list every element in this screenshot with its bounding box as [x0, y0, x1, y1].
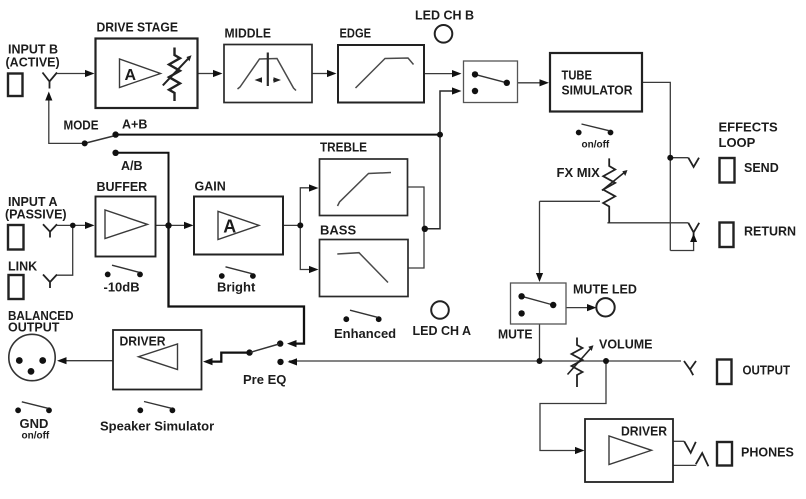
block DRIVER phones: [585, 419, 673, 482]
middle sweep arrows: [258, 79, 277, 81]
wire pre-eq tap: [169, 226, 305, 344]
switch Bright: [219, 267, 256, 279]
junction input A / link node: [70, 223, 76, 229]
XLR balanced output connector: [9, 334, 55, 380]
svg-text:EDGE: EDGE: [340, 26, 372, 41]
svg-text:LINK: LINK: [8, 260, 37, 274]
block DRIVER balanced: [113, 330, 202, 390]
wire bass out: [408, 229, 424, 268]
arrow into bass: [309, 266, 319, 273]
middle center line: [267, 53, 269, 87]
svg-text:BUFFER: BUFFER: [97, 180, 148, 194]
label EFFECTS LOOP: [719, 120, 779, 151]
block MIDDLE: [224, 45, 312, 103]
wire A/B to buffer node: [116, 153, 169, 226]
jack rect INPUT B: [8, 74, 23, 97]
svg-text:A: A: [223, 217, 236, 237]
wire fx wiper to mute: [540, 201, 601, 274]
treble curve: [338, 173, 392, 207]
arrow into xlr: [57, 357, 67, 364]
jack rect SEND: [720, 158, 735, 183]
wire node to treble: [300, 188, 310, 226]
junction treble/bass output node: [422, 226, 428, 232]
amplifier A drive: [120, 59, 161, 88]
potentiometer FX MIX: [602, 158, 624, 222]
svg-text:INPUT B: INPUT B: [8, 43, 58, 57]
wire middle to edge: [312, 73, 328, 75]
channel select switch box: [464, 61, 518, 103]
block EDGE: [338, 45, 424, 103]
junction send node: [667, 155, 673, 161]
buffer triangle: [105, 210, 148, 239]
junction volume output node: [603, 358, 609, 364]
switch Enhanced: [343, 310, 381, 322]
svg-text:MODE: MODE: [64, 119, 99, 133]
junction mute node: [537, 358, 543, 364]
switch Speaker Simulator: [137, 402, 175, 414]
svg-text:DRIVER: DRIVER: [120, 335, 166, 349]
svg-text:GAIN: GAIN: [195, 180, 226, 194]
svg-text:OUTPUT: OUTPUT: [8, 321, 60, 335]
arrow into mute box: [536, 273, 543, 282]
wire return loop: [670, 241, 693, 251]
bass curve: [337, 253, 388, 283]
plug PHONES tip: [684, 441, 696, 453]
arrow into channel switch bottom: [452, 87, 462, 94]
potentiometer VOLUME: [568, 338, 591, 388]
svg-text:VOLUME: VOLUME: [599, 338, 652, 352]
plug SEND: [688, 158, 699, 167]
LED CH B circle: [435, 25, 453, 43]
arrow into middle: [213, 70, 223, 77]
svg-text:FX MIX: FX MIX: [557, 165, 601, 180]
arrow up to input B plug: [45, 92, 52, 101]
plug INPUT B: [43, 73, 58, 89]
svg-text:LED CH A: LED CH A: [413, 324, 472, 338]
jack rect OUTPUT: [717, 360, 732, 385]
label INPUT A (PASSIVE): [5, 195, 67, 222]
switch Pre EQ: [246, 340, 283, 365]
block DRIVE STAGE: [96, 39, 198, 109]
arrow into edge: [327, 70, 337, 77]
switch MODE lever: [86, 136, 114, 143]
label INPUT B (ACTIVE): [6, 43, 60, 70]
plug OUTPUT: [684, 361, 696, 375]
junction buffer output node: [165, 222, 171, 228]
plug RETURN: [688, 223, 699, 238]
wire eq return to channel switch: [424, 91, 453, 229]
svg-text:MIDDLE: MIDDLE: [225, 26, 272, 41]
block BUFFER: [96, 197, 156, 257]
wire phones driver top to plug: [673, 440, 684, 442]
wire link to input node: [57, 225, 73, 275]
wire driver to xlr: [66, 360, 113, 362]
MUTE LED circle: [596, 298, 614, 316]
jack rect PHONES: [717, 442, 732, 466]
gain triangle: [218, 211, 259, 239]
label GND on/off: [20, 416, 50, 442]
wire gain output node: [283, 224, 300, 226]
plug INPUT A: [43, 224, 57, 237]
svg-text:(ACTIVE): (ACTIVE): [6, 56, 60, 70]
svg-text:(PASSIVE): (PASSIVE): [5, 208, 67, 222]
LED CH A circle: [431, 301, 449, 319]
wire node to bass: [300, 225, 310, 269]
wire mode switch to input B: [49, 100, 85, 144]
jack rect RETURN: [720, 223, 734, 248]
wire A+B bus: [116, 134, 440, 136]
MUTE switch box: [511, 283, 567, 324]
plug LINK: [43, 275, 57, 289]
label BALANCED OUTPUT: [8, 309, 74, 335]
wire main output line: [289, 360, 681, 362]
junction gain output node: [297, 222, 303, 228]
edge curve: [356, 58, 414, 88]
potentiometer drive: [169, 48, 180, 102]
wire input B to drive stage: [57, 73, 86, 75]
wire drive to middle: [198, 73, 214, 75]
svg-text:on/off: on/off: [582, 140, 610, 151]
wire edge to channel switch: [424, 73, 453, 75]
arrow into phones driver: [575, 447, 585, 454]
node A+B: [112, 131, 118, 137]
svg-text:A: A: [125, 67, 137, 84]
wire mute to out line: [539, 324, 541, 361]
wire volume node to phones driver: [540, 361, 606, 451]
driver triangle left: [139, 344, 178, 370]
phones driver triangle: [609, 436, 652, 465]
arrow into mute led: [587, 304, 597, 311]
svg-text:DRIVER: DRIVER: [621, 425, 667, 439]
svg-text:A+B: A+B: [122, 118, 147, 132]
arrow into channel switch top: [452, 70, 462, 77]
arrow into drive stage: [85, 70, 95, 77]
switch on/off tube: [576, 124, 614, 135]
svg-text:TREBLE: TREBLE: [320, 140, 367, 155]
switch GND: [15, 402, 52, 413]
svg-text:MUTE LED: MUTE LED: [573, 283, 637, 297]
svg-text:Enhanced: Enhanced: [334, 326, 396, 341]
svg-text:Speaker Simulator: Speaker Simulator: [100, 419, 214, 434]
wire send node to SEND plug: [670, 157, 688, 159]
jack rect INPUT A: [8, 225, 24, 250]
svg-text:DRIVE STAGE: DRIVE STAGE: [97, 20, 179, 35]
wire channel switch to tube simulator: [518, 82, 541, 84]
arrow into tube sim: [540, 79, 550, 86]
wire pre-eq pivot to driver: [211, 353, 250, 362]
svg-text:RETURN: RETURN: [744, 225, 796, 239]
wire treble out: [408, 187, 425, 229]
wire fx pot bottom to return plug: [607, 222, 688, 224]
svg-text:BASS: BASS: [320, 223, 356, 238]
svg-text:SEND: SEND: [744, 161, 779, 175]
junction A+B bus to channel switch feed: [437, 132, 443, 138]
svg-text:SIMULATOR: SIMULATOR: [562, 83, 634, 98]
svg-text:TUBE: TUBE: [562, 68, 593, 83]
wire mute to led: [566, 307, 588, 309]
svg-text:LOOP: LOOP: [719, 135, 756, 150]
block TREBLE: [320, 159, 408, 216]
arrow into buffer: [85, 222, 95, 229]
arrow into pre-eq top contact: [287, 340, 297, 347]
svg-text:Bright: Bright: [217, 280, 256, 295]
switch -10dB: [105, 265, 143, 277]
arrow into gain: [184, 222, 194, 229]
block TUBE SIMULATOR: [550, 53, 642, 112]
wire buffer output: [156, 224, 186, 226]
wire input A to buffer: [57, 224, 86, 226]
svg-text:Pre EQ: Pre EQ: [243, 372, 286, 387]
node A/B: [112, 150, 118, 156]
block GAIN: [194, 197, 283, 255]
svg-text:-10dB: -10dB: [104, 280, 140, 295]
block BASS: [320, 240, 409, 297]
svg-text:A/B: A/B: [121, 159, 143, 173]
arrow into treble: [309, 184, 319, 191]
arrow into driver balanced: [203, 358, 213, 365]
svg-text:LED CH B: LED CH B: [415, 9, 474, 23]
plug PHONES ring: [696, 453, 709, 466]
arrowheads: [45, 70, 697, 454]
wire phones driver bottom to plug: [673, 464, 696, 466]
wire tube sim to send node: [642, 82, 670, 250]
svg-text:EFFECTS: EFFECTS: [719, 120, 779, 135]
svg-text:MUTE: MUTE: [498, 327, 533, 342]
middle bandpass curve: [238, 59, 297, 91]
svg-text:OUTPUT: OUTPUT: [743, 364, 791, 378]
arrow into pre-eq bottom contact: [288, 358, 298, 365]
svg-text:GND: GND: [20, 416, 49, 431]
svg-text:on/off: on/off: [22, 431, 50, 442]
arrow into return plug: [690, 234, 697, 243]
svg-text:PHONES: PHONES: [741, 446, 794, 460]
jack rect LINK: [9, 275, 24, 299]
